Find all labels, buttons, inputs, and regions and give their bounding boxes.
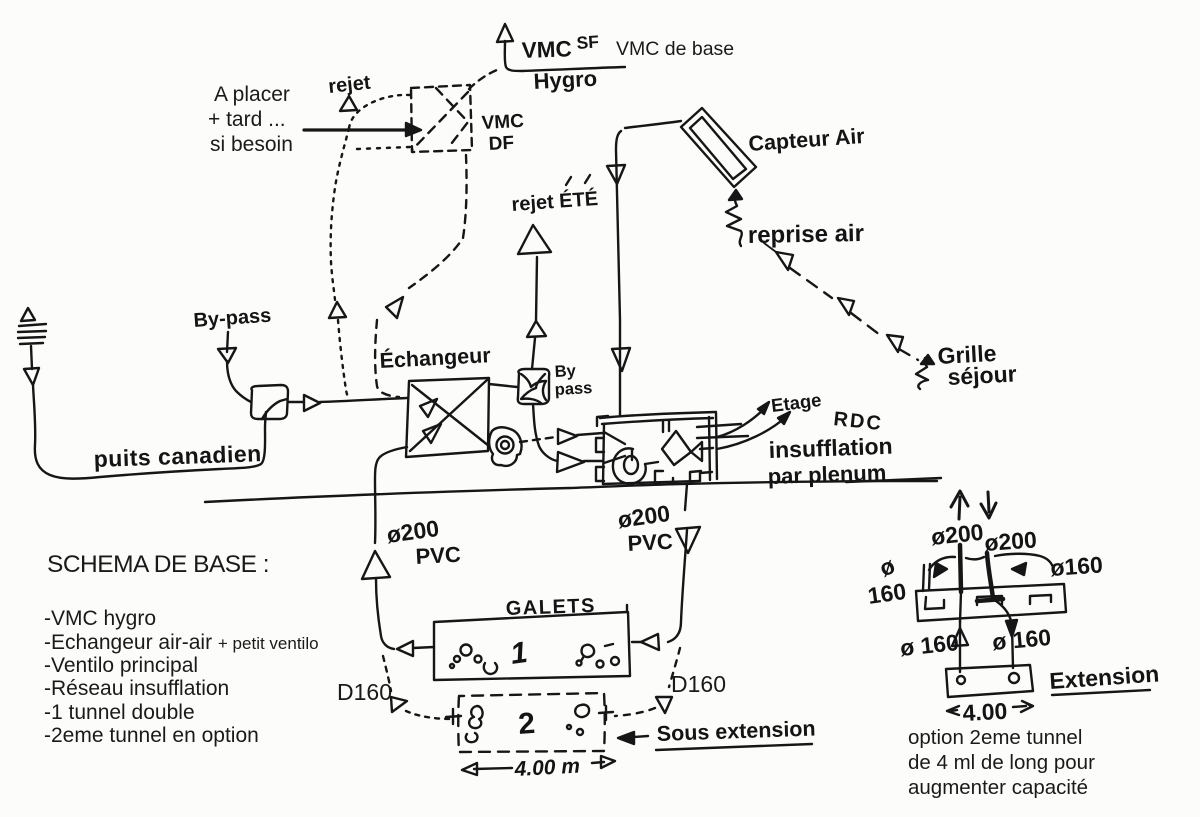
detail: arc over tunnel bbox=[929, 554, 1053, 570]
wire: arrow to echangeur bbox=[320, 398, 407, 402]
svg-text:160: 160 bbox=[866, 578, 908, 609]
caisson plenum lines bbox=[697, 424, 741, 427]
svg-text:-Réseau insufflation: -Réseau insufflation bbox=[44, 677, 229, 700]
svg-text:ø200: ø200 bbox=[930, 519, 985, 550]
detail: left pipe through box bbox=[960, 592, 961, 622]
detail: left pipe down bbox=[959, 621, 961, 672]
wire: floor line bbox=[205, 481, 937, 502]
wire: dashed D160 right bbox=[669, 648, 680, 687]
wire: damper to arrow bbox=[288, 401, 303, 403]
arrow NW on diagonal 3 bbox=[887, 335, 903, 352]
detail: bracket right bbox=[1030, 595, 1051, 604]
by-pass fan box bbox=[518, 369, 550, 404]
capteur air panel outer bbox=[681, 108, 756, 187]
arrow up (phi200 left) bbox=[362, 551, 390, 579]
black arrow (A placer pointer) bbox=[304, 128, 412, 131]
svg-text:par plenum: par plenum bbox=[767, 460, 886, 489]
arrow down (by-pass) bbox=[218, 348, 236, 363]
wire: duct to capteur bbox=[625, 121, 681, 128]
wire: phi200 left pipe from echangeur bbox=[375, 447, 407, 543]
wire: VMC SF duct bbox=[505, 41, 625, 71]
caisson left edge with tabs bbox=[597, 416, 608, 426]
svg-text:SF: SF bbox=[576, 31, 600, 53]
arrow NW on diagonal 2 bbox=[838, 298, 854, 315]
accent ticks bbox=[566, 177, 571, 185]
air inlet symbol (puits canadien entry) bbox=[18, 308, 46, 344]
VMC DF box diagonals bbox=[436, 88, 468, 148]
svg-text:insufflation: insufflation bbox=[768, 433, 893, 463]
echangeur diagonal 1 bbox=[410, 380, 487, 451]
petit ventilo inner circle bbox=[501, 441, 509, 449]
svg-text:2: 2 bbox=[517, 707, 536, 741]
arrow up on dotted left bbox=[329, 302, 346, 318]
wire: dotted left drop (rejet line) bbox=[331, 128, 349, 300]
svg-text:By: By bbox=[554, 362, 577, 381]
caisson diffuser diamond bbox=[662, 431, 691, 465]
wire: puits canadien buried pipe bbox=[33, 385, 266, 479]
plus mark right bbox=[599, 706, 613, 720]
wire: echangeur to bypass box bbox=[489, 384, 517, 387]
arrow NW (D160 left) bbox=[391, 697, 407, 712]
svg-text:séjour: séjour bbox=[947, 360, 1017, 390]
VMC DF dashed box bbox=[411, 85, 472, 152]
arrow right into caisson (lower) bbox=[557, 452, 584, 472]
arrow NW on diagonal 1 bbox=[776, 252, 793, 270]
arrow down solid (right pipe) bbox=[1006, 620, 1017, 637]
svg-text:si besoin: si besoin bbox=[210, 133, 293, 156]
svg-text:VMC: VMC bbox=[481, 111, 525, 134]
detail: bracket middle bbox=[977, 596, 1002, 605]
galets tunnel 1 box bbox=[434, 605, 630, 680]
wire: dotted to tunnel 2 bbox=[406, 711, 452, 719]
capteur air panel inner bbox=[690, 117, 746, 179]
svg-text:de 4 ml de long pour: de 4 ml de long pour bbox=[908, 751, 1095, 774]
arrow NE on diagonal (lower) bbox=[423, 424, 441, 443]
echangeur diagonal 2 bbox=[412, 385, 489, 446]
reprise air zigzag arrow bbox=[726, 196, 742, 246]
svg-text:pass: pass bbox=[554, 379, 592, 399]
caisson bowtie outlet bbox=[691, 442, 702, 461]
arrow left (into galets 1 right) bbox=[641, 634, 659, 650]
down arrow on inlet bbox=[24, 346, 39, 385]
detail: tunnel box bbox=[916, 584, 1066, 621]
arrow up (VMC SF) bbox=[497, 24, 513, 42]
wire: dashed ventilo to arrow bbox=[520, 437, 556, 442]
detail: base plate bbox=[946, 665, 1033, 697]
wire: dashed DF box to VMC SF bbox=[469, 70, 497, 89]
plus mark left bbox=[446, 709, 461, 724]
svg-text:D160: D160 bbox=[671, 671, 726, 697]
svg-text:ø200: ø200 bbox=[984, 526, 1038, 556]
dimension 4.00 m bbox=[474, 768, 512, 769]
svg-text:4.00: 4.00 bbox=[962, 698, 1008, 726]
svg-text:-VMC hygro: -VMC hygro bbox=[44, 607, 156, 630]
svg-text:augmenter capacité: augmenter capacité bbox=[908, 776, 1088, 799]
svg-text:4.00 m: 4.00 m bbox=[513, 755, 581, 781]
wire: phi200 right pipe lower bbox=[668, 530, 687, 642]
svg-text:-Echangeur air-air + petit ven: -Echangeur air-air + petit ventilo bbox=[44, 631, 319, 654]
svg-text:-1 tunnel double: -1 tunnel double bbox=[44, 701, 195, 724]
detail: phi200 stub right (bold) bbox=[987, 553, 993, 598]
wire: bypass drop to lower arrow bbox=[533, 404, 557, 461]
wire: arrow to galets box bbox=[413, 647, 434, 648]
wire: dashed to tunnel 2 right bbox=[615, 708, 655, 716]
arrow left (into galets 1) bbox=[397, 641, 413, 656]
wire: vertical duct capteur to caisson bbox=[616, 131, 621, 416]
detail: bracket left bbox=[925, 597, 944, 609]
damper box (junction) bbox=[251, 385, 288, 419]
arrow down on duct (upper) bbox=[607, 165, 625, 184]
svg-text:-2eme tunnel en option: -2eme tunnel en option bbox=[44, 724, 259, 747]
petit ventilo housing bbox=[489, 427, 521, 466]
svg-text:option 2eme tunnel: option 2eme tunnel bbox=[908, 726, 1082, 749]
arrow left (sous extension) bbox=[634, 736, 648, 737]
detail: port circles bbox=[957, 676, 965, 684]
arrow up small (rejet) bbox=[340, 96, 357, 111]
caisson right edge (double) bbox=[709, 417, 710, 480]
arrow up small (on rejet ETE line) bbox=[527, 321, 546, 337]
arrow down (phi200 right) bbox=[676, 527, 700, 553]
wire: dotted left drop lower bbox=[338, 320, 349, 400]
underline extension bbox=[1052, 690, 1150, 695]
wire: dashed right drop lower bbox=[375, 320, 399, 397]
caisson bottom edge bbox=[603, 481, 700, 484]
grille sejour zigzag arrow bbox=[916, 358, 928, 389]
arrow SW (D160 right) bbox=[656, 697, 672, 713]
svg-text:rejet: rejet bbox=[327, 72, 372, 98]
wire: dotted arc box to rejet arrow bbox=[349, 95, 410, 128]
wire: dashed right drop from DF box bbox=[409, 155, 467, 288]
detail: right pipe down bbox=[996, 601, 1013, 668]
wire: dash-dot along box bottom bbox=[357, 147, 410, 149]
svg-text:-Ventilo principal: -Ventilo principal bbox=[44, 654, 198, 677]
by-pass fan blades bbox=[521, 374, 546, 400]
wire: arrow to Etage bbox=[717, 408, 765, 437]
wire: by-pass drop bbox=[227, 332, 228, 352]
svg-text:SCHEMA DE BASE :: SCHEMA DE BASE : bbox=[47, 551, 269, 578]
wire: dashed D160 left bbox=[383, 656, 391, 691]
detail: left chimney double edge bbox=[923, 564, 930, 591]
underline sous extension bbox=[656, 744, 812, 750]
underline plenum bbox=[846, 478, 941, 482]
wire: phi200 right pipe bbox=[685, 484, 687, 510]
svg-text:PVC: PVC bbox=[627, 529, 674, 556]
svg-text:DF: DF bbox=[488, 133, 514, 155]
svg-text:VMC de base: VMC de base bbox=[616, 38, 734, 60]
caisson top port bbox=[663, 421, 669, 432]
dashed tunnel 2 box bbox=[458, 693, 605, 752]
wire: arrow to RDC bbox=[717, 417, 786, 449]
caisson box top (double line) bbox=[600, 412, 716, 418]
detail: arrow down bold bbox=[981, 492, 996, 518]
arrow right into caisson (upper) bbox=[558, 429, 577, 444]
svg-text:VMC: VMC bbox=[521, 36, 572, 63]
wire: dashed diagonal grille to reprise bbox=[790, 268, 832, 298]
arrow big (rejet ETE) bbox=[518, 225, 551, 254]
echangeur box bbox=[406, 378, 489, 457]
svg-text:ø 160: ø 160 bbox=[991, 624, 1052, 655]
detail: arrow up bold bbox=[951, 491, 968, 519]
svg-text:+ tard ...: + tard ... bbox=[208, 108, 286, 131]
wire: phi200 left pipe lower bbox=[376, 579, 394, 649]
dimension 4.00 detail bbox=[947, 706, 959, 715]
svg-text:Hygro: Hygro bbox=[533, 66, 598, 94]
arrow up hollow (left pipe) bbox=[952, 628, 968, 646]
arrow down on duct (lower) bbox=[612, 348, 630, 371]
wire: bypass box up bbox=[532, 338, 535, 369]
caisson bottom tabs bbox=[655, 471, 663, 483]
caisson funnel inlet bbox=[604, 432, 625, 444]
arrow on arc left bbox=[934, 563, 947, 577]
svg-text:ø160: ø160 bbox=[1050, 551, 1104, 581]
pebbles tunnel 1 right bbox=[577, 644, 620, 668]
pebbles tunnel 1 left bbox=[450, 645, 497, 675]
arrow NE on dashed right bbox=[386, 297, 403, 318]
pebbles tunnel 2 bbox=[466, 705, 589, 742]
arrow NE on diagonal (upper) bbox=[420, 399, 437, 417]
arrow right (to echangeur) bbox=[304, 395, 320, 411]
svg-text:A placer: A placer bbox=[214, 83, 290, 106]
svg-text:PVC: PVC bbox=[415, 542, 462, 569]
svg-text:D160: D160 bbox=[337, 679, 392, 705]
caisson fan scroll bbox=[613, 448, 658, 483]
detail: phi200 stub left (bold) bbox=[960, 545, 961, 592]
arrow on arc right bbox=[1012, 563, 1026, 575]
